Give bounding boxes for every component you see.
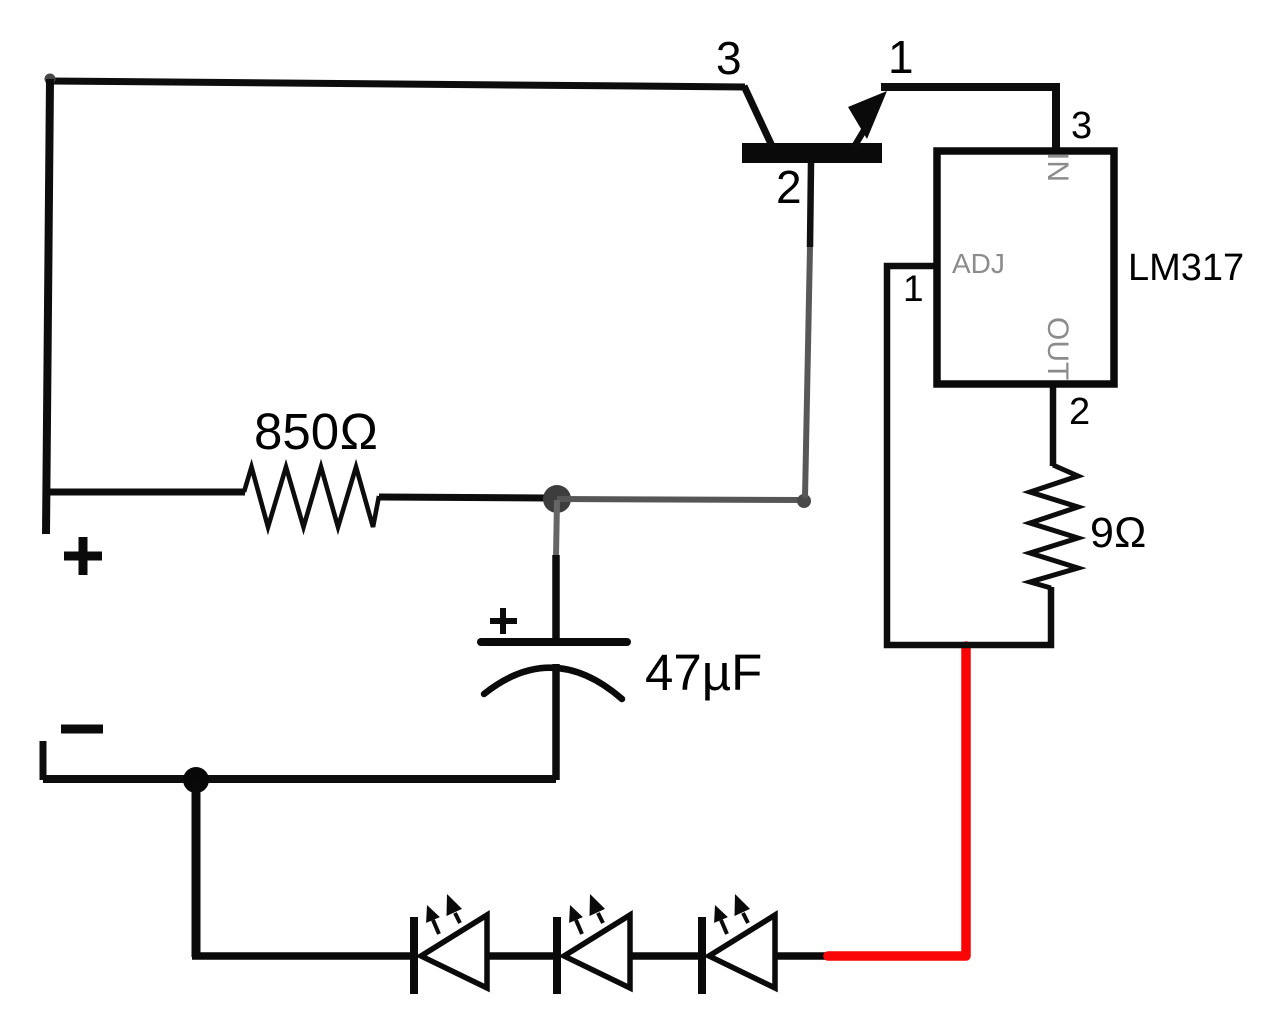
LED D3 arrow large [743,913,748,923]
wire capacitor to bottom rail [552,664,560,780]
wire gray node A to node B [557,499,803,500]
op-amp block LM317 box U1 [937,151,1114,384]
svg-text:3: 3 [716,32,742,84]
LED D2 arrow large [598,913,603,923]
svg-text:2: 2 [1069,391,1090,433]
LED D2 [553,894,630,994]
LED D3 cathode bar [698,917,706,994]
svg-text:OUT: OUT [1041,317,1074,380]
capacitor C1 bottom curved plate [484,668,622,699]
svg-text:ADJ: ADJ [952,248,1005,279]
wire black to capacitor top plate [552,555,560,641]
wire left rail vertical [46,79,50,534]
capacitor C1 top plate [481,638,627,646]
node C junction dot bottom rail [183,767,209,793]
transistor Q1 pin 3 diagonal lead [744,86,772,146]
wire ADJ loop: left vertical and bottom rail [887,266,1051,645]
transistor Q1 emitter arrowhead [848,91,887,139]
resistor R2 9 ohm vertical zigzag [1030,465,1078,588]
LED D1 [410,894,487,994]
wire LED D1 to LED D2 [487,952,557,960]
node +V corner dot [45,74,56,85]
transistor Q1 base bar [742,143,882,163]
LED D2 cathode bar [553,917,561,994]
resistor R1 850 ohm zigzag [244,467,379,527]
wire transistor pin2 black segment [810,163,811,247]
wire gray node A down to capacitor [556,500,557,557]
wire red from LED string to regulator loop [828,646,966,956]
wire bottom rail [43,775,556,783]
LED D3 arrow small [721,920,727,934]
wire LED D3 anode lead black [775,952,828,960]
LED D2 arrow small [576,920,582,934]
wire IN pin from transistor emitter [881,87,1056,150]
svg-text:9Ω: 9Ω [1090,509,1147,557]
svg-text:2: 2 [776,161,802,213]
LED D3 [698,894,775,994]
transistor Q1 pin 1 emitter shaft [854,117,872,147]
wire LED D2 to LED D3 [630,952,702,960]
LED D2 triangle [564,915,630,988]
wire LED row left lead [192,952,414,960]
svg-text:1: 1 [903,268,924,309]
node A junction dot [543,485,571,513]
wire top rail from +V corner to transistor pin 3 [50,81,745,87]
LED D1 cathode bar [410,917,418,994]
svg-text:LM317: LM317 [1128,247,1244,289]
svg-text:IN: IN [1041,152,1074,182]
LED D1 arrow large [455,913,460,923]
+ terminal label [64,537,102,575]
minus label [61,725,103,734]
capacitor C1 polarity plus [490,608,517,634]
wire node C down to LED row [192,780,201,957]
node B small dot [797,494,811,508]
wire from + rail to resistor R1 [45,489,245,496]
svg-text:850Ω: 850Ω [254,403,378,460]
svg-text:47µF: 47µF [645,644,762,701]
svg-text:3: 3 [1071,105,1092,147]
LED D1 triangle [421,915,487,988]
LED D3 triangle [709,915,775,988]
wire transistor pin2 gray segment down to node B [805,247,810,498]
LED D1 arrow small [433,920,439,934]
minus terminal stub [40,741,47,780]
wire OUT pin lead [1050,384,1057,466]
svg-text:1: 1 [888,31,914,83]
wire resistor R1 to node A [379,497,546,498]
